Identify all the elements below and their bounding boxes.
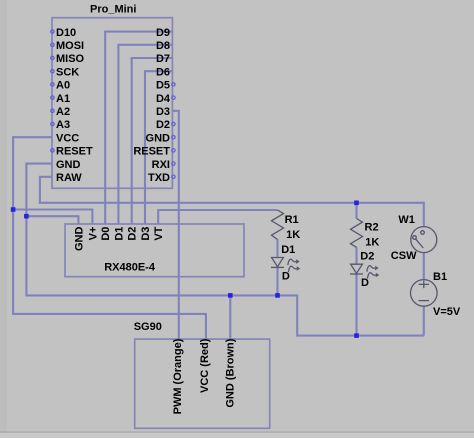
svg-text:R2: R2 xyxy=(365,222,379,234)
junction node SG90 GND / GND rail xyxy=(228,293,233,298)
servo M1 SG90 body xyxy=(134,321,270,429)
RX480E-4 pin V+ xyxy=(87,227,99,241)
LED D1 xyxy=(271,244,300,283)
svg-text:D3: D3 xyxy=(140,227,152,241)
wire Pro_Mini D3 to SG90 PWM (Orange) xyxy=(172,111,178,339)
Pro_Mini pin D4 xyxy=(156,93,175,105)
wire D2 cathode to bottom GND rail xyxy=(355,274,357,336)
svg-text:D0: D0 xyxy=(100,227,112,241)
wire R2 bottom to D2 anode xyxy=(355,247,357,264)
wire Pro_Mini GND net xyxy=(26,164,423,336)
wire Pro_Mini D9 to RX480E-4 D0 xyxy=(105,32,172,224)
svg-text:SCK: SCK xyxy=(56,66,79,78)
Pro_Mini pin D3 xyxy=(156,106,170,118)
svg-text:W1: W1 xyxy=(398,214,415,226)
RX480E-4 pin D2 xyxy=(127,227,139,241)
junction node D2 cathode / bottom rail xyxy=(354,333,359,338)
Pro_Mini pin TXD xyxy=(148,172,175,184)
Pro_Mini pin A1 xyxy=(51,93,70,105)
svg-text:TXD: TXD xyxy=(148,172,170,184)
svg-text:D: D xyxy=(282,271,290,283)
RX480E-4 pin D0 xyxy=(100,227,112,241)
wire Pro_Mini RAW to R1 rail / W1 xyxy=(40,177,424,227)
Pro_Mini pin SCK xyxy=(51,66,80,78)
svg-text:D1: D1 xyxy=(113,227,125,241)
Pro_Mini pin A2 xyxy=(51,106,70,118)
svg-text:D8: D8 xyxy=(156,40,170,52)
Pro_Mini pin D10 xyxy=(51,27,76,39)
switch W1 CSW xyxy=(391,214,437,262)
svg-text:V=5V: V=5V xyxy=(433,306,461,318)
Pro_Mini pin GND xyxy=(56,159,81,171)
wire RX480E-4 VT to R1 top xyxy=(158,210,277,224)
junction node RAW rail / R2 xyxy=(354,201,359,206)
svg-text:A2: A2 xyxy=(56,106,70,118)
junction node D1 cathode / GND rail xyxy=(275,293,280,298)
wire Pro_Mini D8 to RX480E-4 D1 xyxy=(118,45,172,224)
Pro_Mini pin D5 xyxy=(156,80,175,92)
svg-text:D3: D3 xyxy=(156,106,170,118)
svg-text:CSW: CSW xyxy=(391,250,417,262)
Pro_Mini pin VCC xyxy=(56,132,79,144)
Pro_Mini pin RXI xyxy=(152,159,175,171)
svg-text:D4: D4 xyxy=(156,93,171,105)
Pro_Mini pin D2 xyxy=(156,119,175,131)
wire W1 bottom to B1 top xyxy=(423,253,425,280)
svg-text:D: D xyxy=(361,277,369,289)
svg-text:VCC: VCC xyxy=(56,132,79,144)
Pro_Mini pin RAW xyxy=(56,172,82,184)
resistor R2 xyxy=(351,219,380,249)
svg-text:R1: R1 xyxy=(285,214,299,226)
svg-text:D10: D10 xyxy=(56,27,76,39)
svg-text:MOSI: MOSI xyxy=(56,40,84,52)
svg-text:RESET: RESET xyxy=(56,146,93,158)
wire Pro_Mini D6 to RX480E-4 D3 xyxy=(145,71,172,224)
battery B1 voltage source xyxy=(411,271,461,318)
svg-text:1K: 1K xyxy=(365,237,379,249)
Pro_Mini pin D7 xyxy=(156,53,170,65)
svg-text:D1: D1 xyxy=(281,244,295,256)
svg-text:GND: GND xyxy=(56,159,81,171)
svg-text:A1: A1 xyxy=(56,93,70,105)
svg-text:GND (Brown): GND (Brown) xyxy=(224,338,236,407)
wire B1 bottom to GND rail xyxy=(423,306,425,335)
Pro_Mini pin MOSI xyxy=(51,40,84,52)
IC U1 Pro_Mini body xyxy=(52,4,172,189)
svg-text:1K: 1K xyxy=(286,229,300,241)
svg-text:D6: D6 xyxy=(156,66,170,78)
wire branch to RX480E-4 GND xyxy=(26,216,78,224)
svg-text:SG90: SG90 xyxy=(134,321,162,333)
svg-text:A0: A0 xyxy=(56,80,70,92)
SG90 pin PWM (Orange) xyxy=(172,338,184,414)
svg-text:GND: GND xyxy=(73,227,85,252)
Pro_Mini pin A3 xyxy=(51,119,70,131)
Pro_Mini pin RESET2 xyxy=(133,146,175,158)
svg-text:VCC (Red): VCC (Red) xyxy=(199,338,211,393)
svg-text:D2: D2 xyxy=(360,250,374,262)
svg-text:D2: D2 xyxy=(127,227,139,241)
svg-text:RAW: RAW xyxy=(56,172,82,184)
svg-text:RXI: RXI xyxy=(152,159,170,171)
svg-text:RX480E-4: RX480E-4 xyxy=(104,262,156,274)
resistor R1 xyxy=(272,210,301,241)
Pro_Mini pin D6 xyxy=(156,66,170,78)
Pro_Mini pin MISO xyxy=(51,53,85,65)
wire branch to RX480E-4 V+ xyxy=(13,210,92,225)
svg-text:MISO: MISO xyxy=(56,53,85,65)
LED D2 xyxy=(350,250,379,289)
RX480E-4 pin D1 xyxy=(113,227,125,241)
svg-text:D2: D2 xyxy=(156,119,170,131)
wire R1 bottom to D1 anode xyxy=(276,240,278,258)
wire Pro_Mini D7 to RX480E-4 D2 xyxy=(132,58,173,224)
wire stub R2 top xyxy=(355,203,357,219)
svg-text:RESET: RESET xyxy=(133,146,170,158)
IC U2 RX480E-4 body xyxy=(65,224,244,277)
Pro_Mini pin A0 xyxy=(51,80,70,92)
svg-text:B1: B1 xyxy=(433,271,447,283)
SG90 pin VCC (Red) xyxy=(199,338,211,393)
SG90 pin GND (Brown) xyxy=(224,338,236,407)
svg-text:Pro_Mini: Pro_Mini xyxy=(90,4,136,16)
svg-text:D7: D7 xyxy=(156,53,170,65)
Pro_Mini pin RESET xyxy=(51,146,93,158)
svg-text:V+: V+ xyxy=(87,227,99,241)
svg-text:VT: VT xyxy=(153,226,165,240)
Pro_Mini pin GND2 xyxy=(146,132,176,144)
wire Pro_Mini VCC to RX480E-4 V+ and SG90 VCC xyxy=(13,137,206,339)
svg-text:D9: D9 xyxy=(156,27,170,39)
junction node VCC/V+ xyxy=(11,207,16,212)
svg-text:GND: GND xyxy=(146,132,171,144)
Pro_Mini pin D9 xyxy=(156,27,170,39)
RX480E-4 pin VT xyxy=(153,226,165,240)
svg-text:PWM (Orange): PWM (Orange) xyxy=(172,338,184,414)
RX480E-4 pin GND xyxy=(73,227,85,252)
wire branch to SG90 GND (Brown) xyxy=(229,295,231,339)
wire D1 cathode to GND net xyxy=(276,267,278,295)
Pro_Mini pin D8 xyxy=(156,40,170,52)
RX480E-4 pin D3 xyxy=(140,227,152,241)
svg-text:A3: A3 xyxy=(56,119,70,131)
svg-text:D5: D5 xyxy=(156,80,170,92)
junction node GND/RX-GND xyxy=(24,214,29,219)
